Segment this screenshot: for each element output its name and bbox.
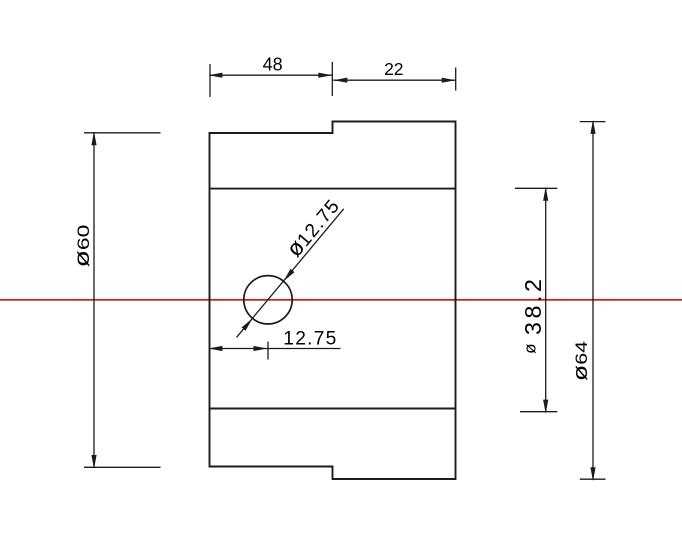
- svg-text:ø64: ø64: [569, 341, 592, 382]
- hole circle: [244, 276, 292, 324]
- dimension d60: [70, 131, 160, 469]
- svg-text:12.75: 12.75: [283, 329, 336, 350]
- dimension 12.75 (hole position): [208, 329, 340, 360]
- dimension 22: [333, 59, 455, 91]
- svg-text:22: 22: [384, 59, 403, 79]
- dimension d64: [569, 120, 606, 481]
- dimension d38.2: [515, 187, 557, 414]
- part outline: [210, 122, 456, 480]
- centerline (red horizontal axis): [0, 299, 682, 301]
- svg-text:48: 48: [263, 55, 283, 75]
- svg-text:ø60: ø60: [70, 225, 94, 268]
- svg-text:38.2: 38.2: [520, 279, 546, 335]
- leader dimension d12.75 (hole diameter): [237, 193, 344, 337]
- dimension 48: [208, 55, 332, 98]
- svg-text:ø: ø: [521, 344, 540, 354]
- bore line bottom: [210, 408, 456, 410]
- bore line top: [210, 188, 456, 190]
